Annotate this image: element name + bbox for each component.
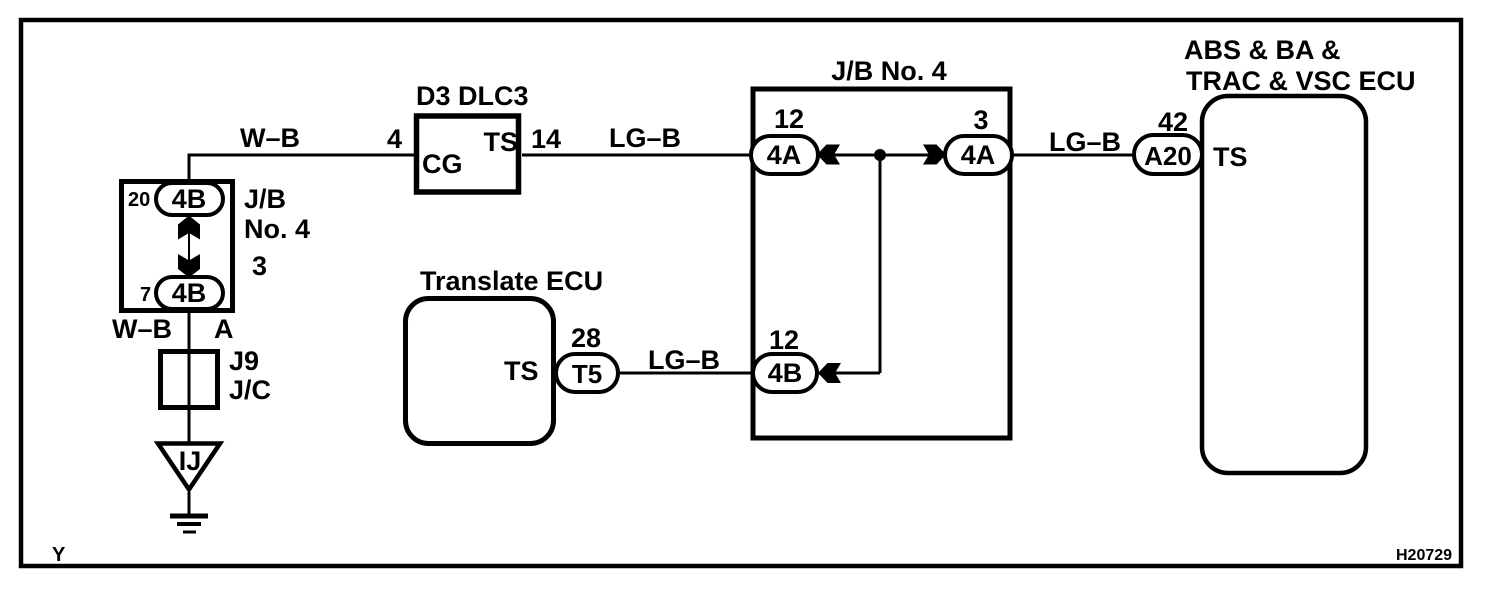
svg-text:IJ: IJ bbox=[179, 446, 202, 476]
svg-text:T5: T5 bbox=[572, 359, 602, 389]
svg-text:J9: J9 bbox=[229, 346, 259, 376]
svg-text:4: 4 bbox=[387, 124, 402, 154]
svg-text:TS: TS bbox=[1213, 142, 1248, 172]
svg-text:TS: TS bbox=[504, 356, 539, 386]
svg-text:4B: 4B bbox=[172, 278, 207, 308]
svg-text:12: 12 bbox=[774, 104, 804, 134]
svg-text:CG: CG bbox=[422, 149, 463, 179]
svg-text:4A: 4A bbox=[961, 140, 996, 170]
svg-text:J/B No. 4: J/B No. 4 bbox=[831, 56, 947, 86]
svg-text:TS: TS bbox=[483, 127, 518, 157]
svg-text:A: A bbox=[214, 314, 234, 344]
svg-text:Translate ECU: Translate ECU bbox=[420, 266, 603, 296]
svg-text:4B: 4B bbox=[768, 358, 803, 388]
svg-text:LG–B: LG–B bbox=[648, 345, 720, 375]
svg-text:3: 3 bbox=[252, 251, 267, 281]
svg-text:4B: 4B bbox=[172, 184, 207, 214]
svg-text:W–B: W–B bbox=[240, 123, 300, 153]
svg-text:J/C: J/C bbox=[229, 375, 271, 405]
svg-text:LG–B: LG–B bbox=[1049, 127, 1121, 157]
svg-text:42: 42 bbox=[1158, 107, 1188, 137]
svg-text:J/B: J/B bbox=[244, 184, 286, 214]
svg-text:3: 3 bbox=[973, 105, 988, 135]
svg-text:H20729: H20729 bbox=[1396, 547, 1452, 564]
svg-text:No. 4: No. 4 bbox=[244, 214, 310, 244]
svg-text:28: 28 bbox=[571, 323, 601, 353]
svg-text:A20: A20 bbox=[1144, 141, 1192, 171]
svg-text:4A: 4A bbox=[767, 140, 802, 170]
svg-text:ABS & BA &: ABS & BA & bbox=[1184, 35, 1341, 65]
svg-text:TRAC & VSC ECU: TRAC & VSC ECU bbox=[1186, 66, 1416, 96]
svg-text:W–B: W–B bbox=[112, 314, 172, 344]
svg-text:14: 14 bbox=[531, 124, 561, 154]
svg-text:Y: Y bbox=[52, 544, 66, 566]
svg-text:LG–B: LG–B bbox=[609, 123, 681, 153]
svg-text:7: 7 bbox=[140, 284, 151, 306]
svg-text:D3 DLC3: D3 DLC3 bbox=[416, 81, 529, 111]
svg-text:12: 12 bbox=[769, 325, 799, 355]
svg-text:20: 20 bbox=[128, 189, 150, 211]
